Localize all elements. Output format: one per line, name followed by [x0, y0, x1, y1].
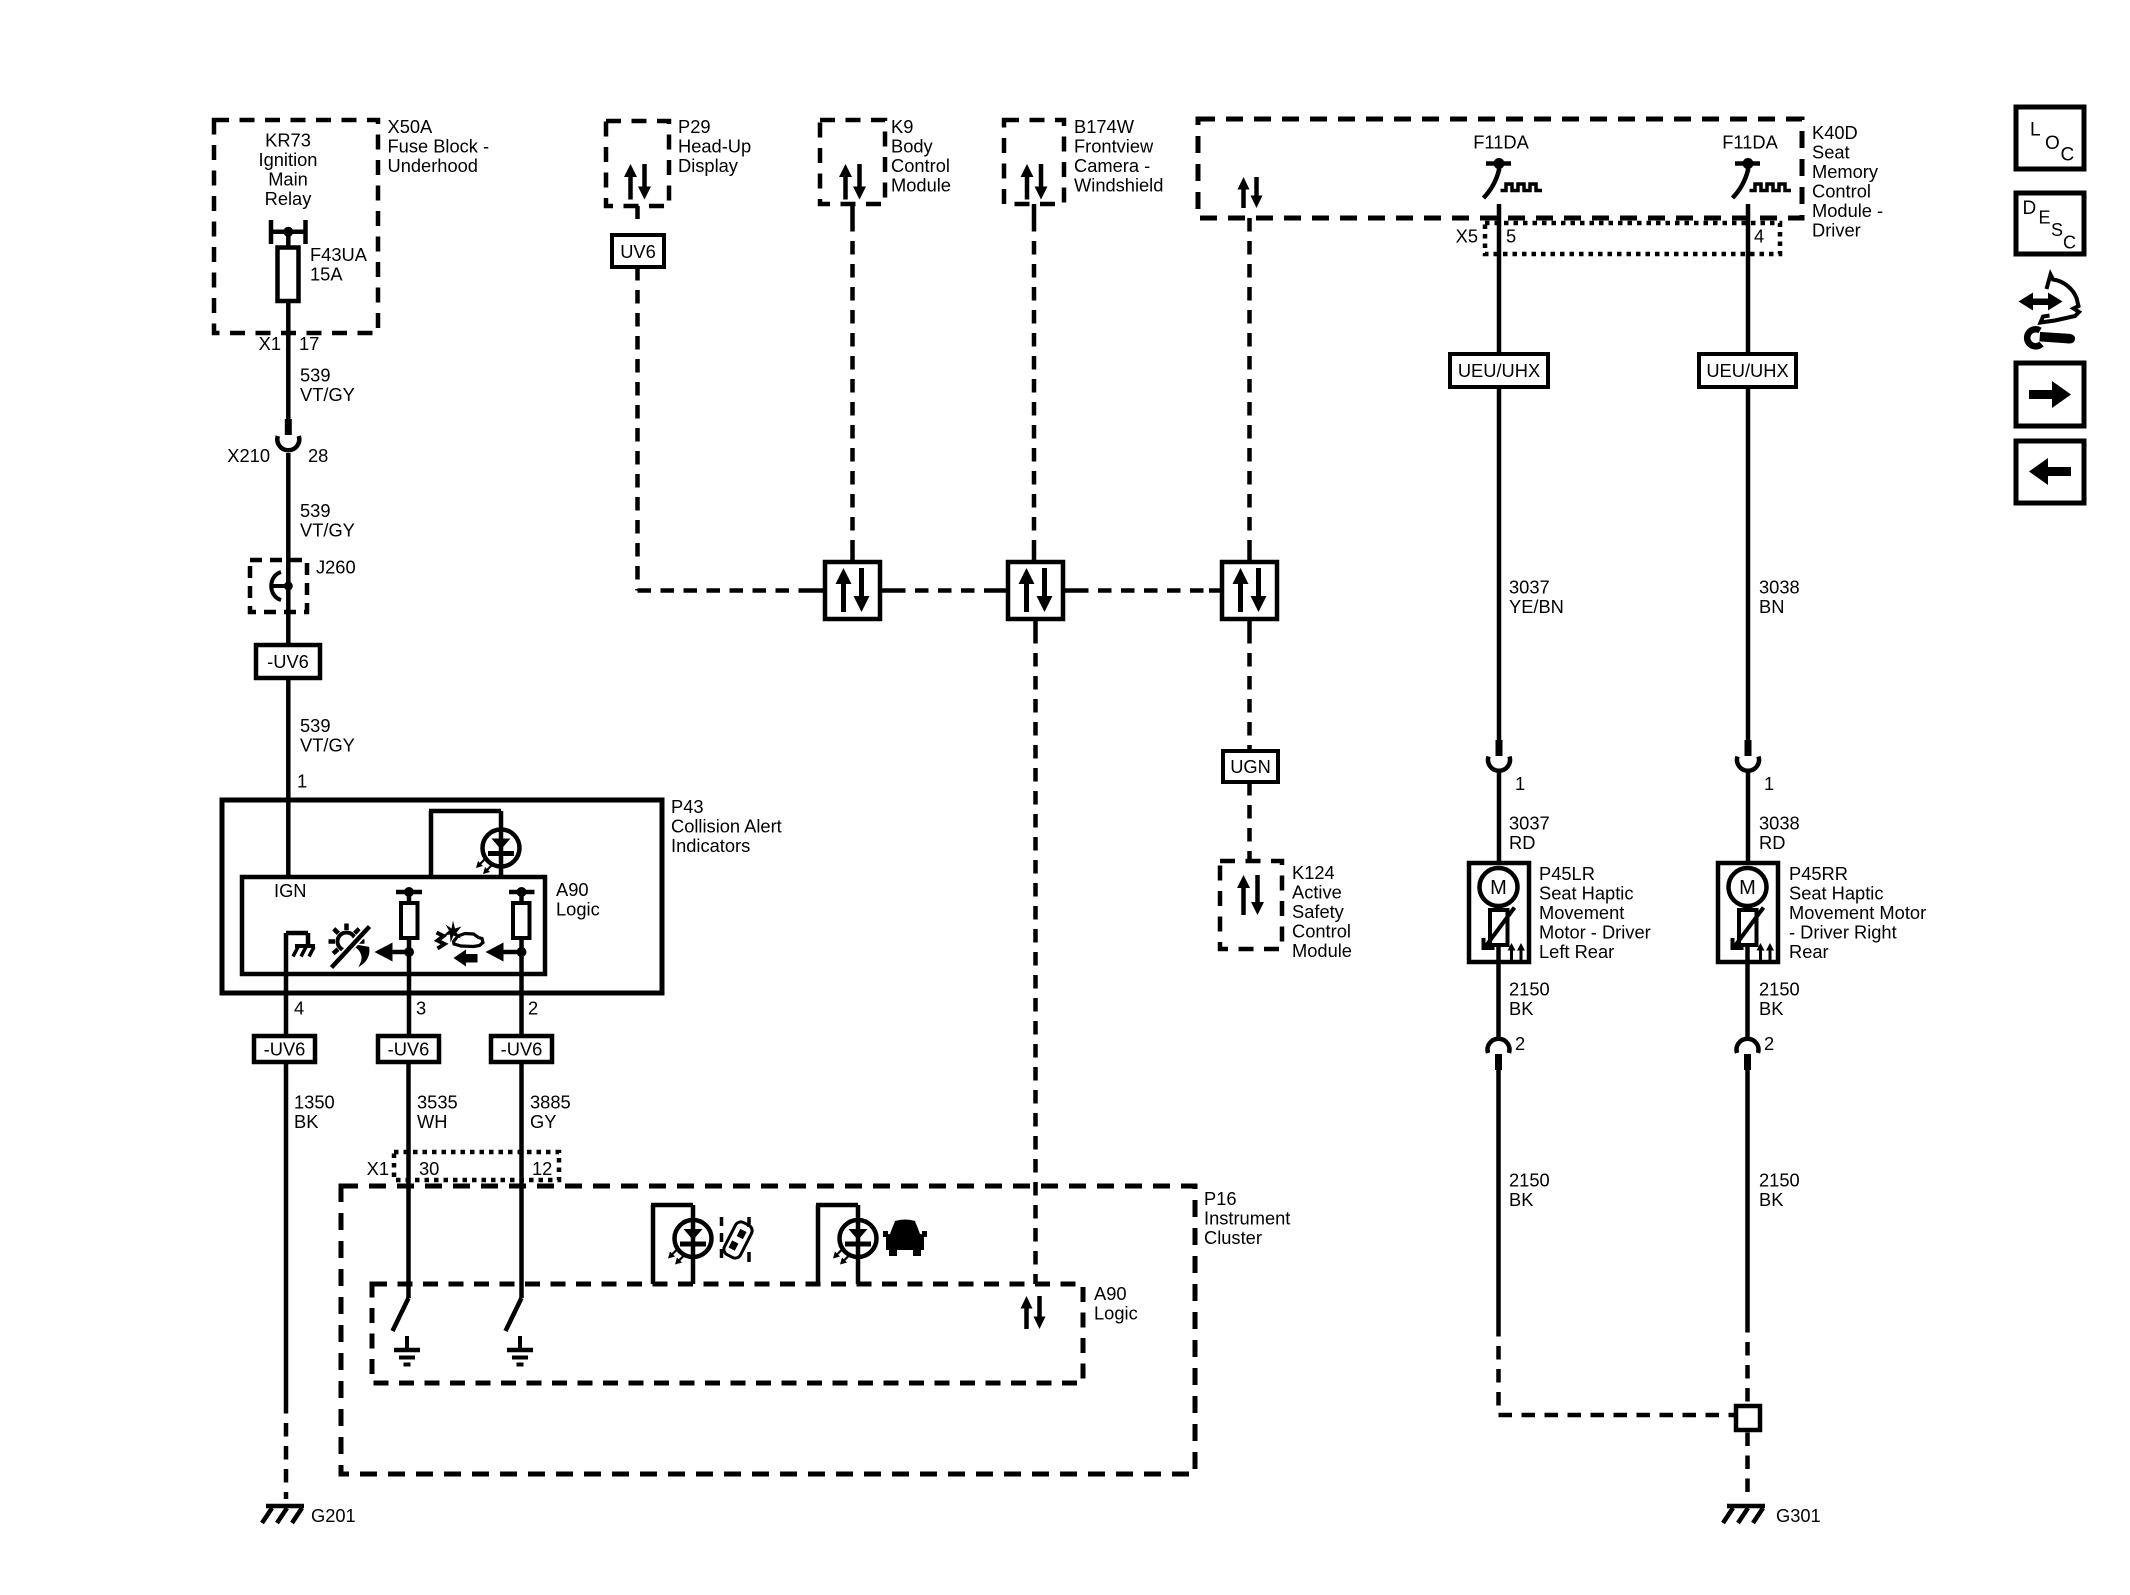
svg-text:539: 539 — [300, 715, 331, 736]
svg-text:15A: 15A — [310, 264, 343, 285]
svg-text:Movement Motor: Movement Motor — [1789, 902, 1926, 923]
svg-text:1: 1 — [1515, 773, 1525, 794]
svg-text:UEU/UHX: UEU/UHX — [1706, 360, 1788, 381]
svg-text:Windshield: Windshield — [1074, 175, 1163, 196]
svg-text:2150: 2150 — [1509, 1170, 1550, 1191]
svg-text:Module: Module — [1292, 940, 1352, 961]
svg-text:Control: Control — [891, 155, 950, 176]
svg-text:K9: K9 — [891, 116, 913, 137]
svg-text:Left Rear: Left Rear — [1539, 941, 1614, 962]
svg-text:BK: BK — [1759, 998, 1783, 1019]
svg-text:X1: X1 — [367, 1158, 389, 1179]
svg-text:C: C — [2063, 233, 2076, 253]
svg-text:5: 5 — [1506, 226, 1516, 247]
svg-text:E: E — [2039, 208, 2051, 228]
svg-text:Module -: Module - — [1812, 200, 1883, 221]
svg-text:Movement: Movement — [1539, 902, 1624, 923]
svg-text:-UV6: -UV6 — [267, 651, 309, 672]
svg-text:Rear: Rear — [1789, 941, 1829, 962]
svg-text:P16: P16 — [1204, 1188, 1237, 1209]
svg-text:2150: 2150 — [1759, 979, 1800, 1000]
svg-text:S: S — [2051, 220, 2063, 240]
svg-text:30: 30 — [419, 1158, 439, 1179]
svg-text:C: C — [2061, 145, 2075, 166]
svg-text:BN: BN — [1759, 596, 1784, 617]
svg-text:Indicators: Indicators — [671, 835, 750, 856]
svg-text:Ignition: Ignition — [259, 149, 318, 170]
svg-text:VT/GY: VT/GY — [300, 520, 355, 541]
svg-text:A90: A90 — [556, 879, 589, 900]
svg-text:WH: WH — [417, 1111, 447, 1132]
svg-text:Camera -: Camera - — [1074, 155, 1150, 176]
svg-text:Control: Control — [1292, 921, 1351, 942]
svg-text:-UV6: -UV6 — [264, 1039, 306, 1060]
svg-text:F43UA: F43UA — [310, 244, 368, 265]
svg-text:3037: 3037 — [1509, 813, 1550, 834]
svg-text:L: L — [2030, 120, 2041, 141]
svg-text:X5: X5 — [1456, 226, 1478, 247]
svg-text:M: M — [1739, 877, 1756, 899]
svg-text:1: 1 — [1764, 773, 1774, 794]
svg-text:K40D: K40D — [1812, 122, 1858, 143]
svg-text:Seat Haptic: Seat Haptic — [1789, 883, 1884, 904]
svg-text:Active: Active — [1292, 882, 1342, 903]
svg-text:B174W: B174W — [1074, 116, 1135, 137]
svg-text:Head-Up: Head-Up — [678, 136, 751, 157]
svg-text:-UV6: -UV6 — [388, 1039, 430, 1060]
svg-text:Motor - Driver: Motor - Driver — [1539, 922, 1651, 943]
svg-text:BK: BK — [1509, 1189, 1533, 1210]
svg-text:J260: J260 — [316, 557, 356, 578]
svg-text:Body: Body — [891, 136, 934, 157]
svg-text:M: M — [1490, 877, 1507, 899]
svg-text:Fuse Block -: Fuse Block - — [388, 136, 490, 157]
svg-text:17: 17 — [299, 333, 319, 354]
svg-text:Module: Module — [891, 175, 951, 196]
svg-text:BK: BK — [1759, 1189, 1783, 1210]
svg-text:3037: 3037 — [1509, 577, 1550, 598]
svg-text:1: 1 — [297, 771, 307, 792]
svg-text:Seat: Seat — [1812, 142, 1850, 163]
svg-text:Cluster: Cluster — [1204, 1227, 1262, 1248]
svg-text:BK: BK — [294, 1111, 318, 1132]
svg-text:28: 28 — [308, 445, 328, 466]
svg-text:4: 4 — [1754, 226, 1764, 247]
svg-text:P45RR: P45RR — [1789, 863, 1848, 884]
svg-text:A90: A90 — [1094, 1283, 1127, 1304]
svg-text:Underhood: Underhood — [388, 155, 478, 176]
svg-text:UGN: UGN — [1230, 756, 1271, 777]
svg-text:2150: 2150 — [1759, 1170, 1800, 1191]
svg-text:3885: 3885 — [530, 1092, 571, 1113]
svg-text:Memory: Memory — [1812, 161, 1879, 182]
svg-text:G301: G301 — [1776, 1505, 1821, 1526]
svg-text:P45LR: P45LR — [1539, 863, 1595, 884]
svg-text:Relay: Relay — [265, 188, 313, 209]
svg-text:-UV6: -UV6 — [501, 1039, 543, 1060]
svg-text:Display: Display — [678, 155, 739, 176]
svg-text:GY: GY — [530, 1111, 556, 1132]
svg-text:VT/GY: VT/GY — [300, 384, 355, 405]
svg-text:F11DA: F11DA — [1473, 132, 1529, 153]
svg-text:4: 4 — [294, 998, 304, 1019]
svg-text:3535: 3535 — [417, 1092, 458, 1113]
svg-text:Safety: Safety — [1292, 901, 1345, 922]
svg-text:VT/GY: VT/GY — [300, 735, 355, 756]
svg-text:UEU/UHX: UEU/UHX — [1458, 360, 1540, 381]
svg-text:X210: X210 — [227, 445, 270, 466]
svg-text:2: 2 — [1515, 1033, 1525, 1054]
svg-text:Logic: Logic — [556, 899, 600, 920]
svg-text:X50A: X50A — [388, 116, 434, 137]
svg-text:2150: 2150 — [1509, 979, 1550, 1000]
svg-text:P29: P29 — [678, 116, 711, 137]
svg-text:G201: G201 — [311, 1505, 356, 1526]
svg-text:539: 539 — [300, 500, 331, 521]
svg-text:3038: 3038 — [1759, 813, 1800, 834]
svg-text:KR73: KR73 — [265, 130, 311, 151]
svg-text:Collision Alert: Collision Alert — [671, 816, 782, 837]
svg-text:3038: 3038 — [1759, 577, 1800, 598]
svg-text:12: 12 — [532, 1158, 552, 1179]
svg-text:Driver: Driver — [1812, 220, 1861, 241]
svg-text:RD: RD — [1759, 832, 1785, 853]
svg-text:Logic: Logic — [1094, 1303, 1138, 1324]
svg-text:IGN: IGN — [274, 880, 307, 901]
svg-text:X1: X1 — [259, 333, 281, 354]
svg-text:O: O — [2045, 133, 2060, 154]
svg-text:- Driver Right: - Driver Right — [1789, 922, 1897, 943]
svg-text:P43: P43 — [671, 796, 704, 817]
svg-text:539: 539 — [300, 365, 331, 386]
svg-text:K124: K124 — [1292, 862, 1335, 883]
svg-text:1350: 1350 — [294, 1092, 335, 1113]
svg-text:RD: RD — [1509, 832, 1535, 853]
svg-text:D: D — [2023, 198, 2037, 219]
svg-text:Frontview: Frontview — [1074, 136, 1154, 157]
svg-text:Instrument: Instrument — [1204, 1208, 1290, 1229]
svg-text:2: 2 — [528, 998, 538, 1019]
svg-text:BK: BK — [1509, 998, 1533, 1019]
svg-text:Control: Control — [1812, 181, 1871, 202]
svg-text:2: 2 — [1764, 1033, 1774, 1054]
svg-text:3: 3 — [416, 998, 426, 1019]
svg-text:F11DA: F11DA — [1722, 132, 1778, 153]
svg-text:Seat Haptic: Seat Haptic — [1539, 883, 1634, 904]
svg-text:YE/BN: YE/BN — [1509, 596, 1564, 617]
svg-text:Main: Main — [268, 169, 308, 190]
svg-text:UV6: UV6 — [620, 241, 656, 262]
